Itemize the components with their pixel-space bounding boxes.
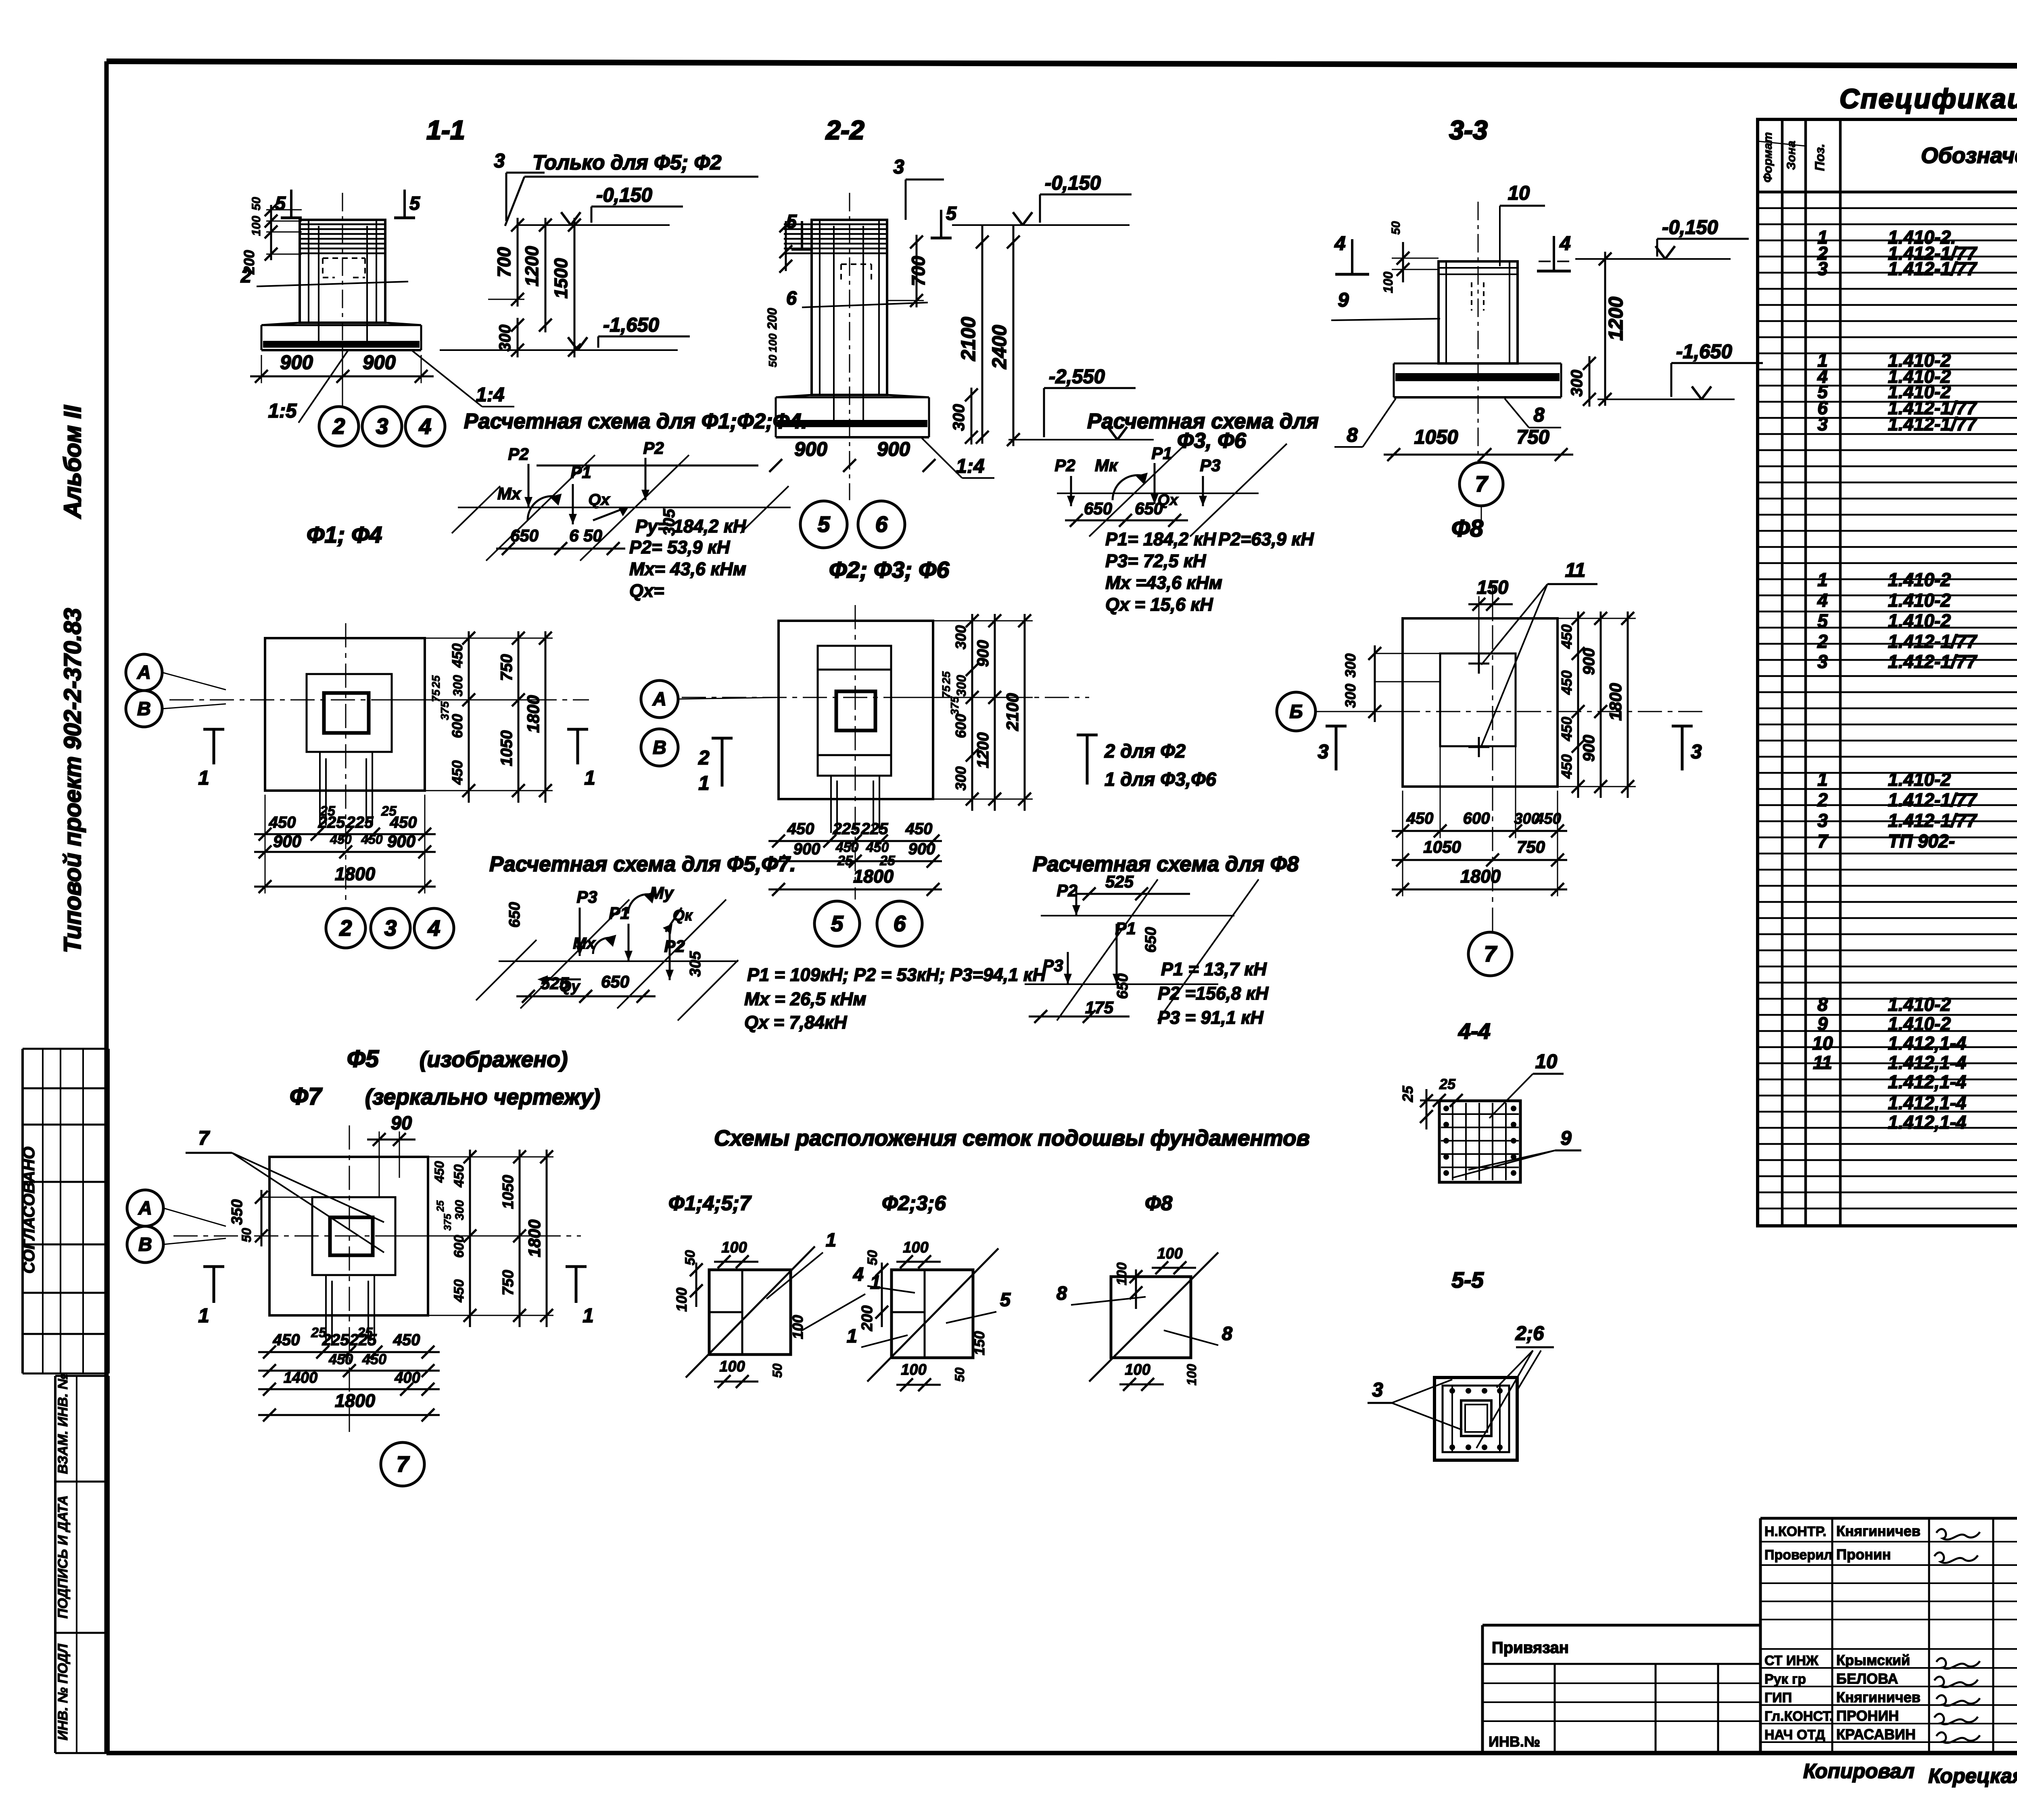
svg-text:А: А: [137, 662, 151, 683]
svg-text:5: 5: [831, 911, 844, 936]
svg-text:1: 1: [847, 1325, 857, 1346]
svg-text:300: 300: [1342, 684, 1359, 708]
svg-text:900: 900: [363, 352, 396, 374]
svg-text:1.412,1-4: 1.412,1-4: [1888, 1071, 1966, 1092]
svg-text:7: 7: [1475, 472, 1489, 497]
svg-text:Р1: Р1: [1115, 919, 1136, 938]
svg-text:450: 450: [273, 1331, 300, 1349]
svg-text:300: 300: [954, 675, 969, 697]
section marks 3 plan 3: [1318, 726, 1702, 770]
svg-text:1: 1: [870, 1271, 881, 1293]
svg-text:10: 10: [1535, 1051, 1558, 1073]
svg-text:1.412-1/77: 1.412-1/77: [1888, 789, 1977, 810]
svg-text:А: А: [138, 1197, 152, 1219]
svg-text:750: 750: [1516, 426, 1549, 448]
left margin label Album II: [59, 405, 86, 519]
plan 1 bottom dims: [254, 795, 436, 893]
svg-text:900: 900: [794, 438, 827, 460]
svg-text:1.412-1/77: 1.412-1/77: [1888, 413, 1977, 434]
svg-text:25: 25: [1439, 1076, 1456, 1092]
svg-text:3: 3: [1318, 741, 1328, 763]
svg-text:900: 900: [1580, 735, 1598, 762]
detail 5-5 leaders: [1368, 1323, 1554, 1448]
svg-text:650: 650: [506, 902, 523, 927]
svg-text:3: 3: [1691, 741, 1702, 763]
svg-text:4: 4: [1817, 590, 1828, 611]
svg-text:25: 25: [435, 1200, 446, 1212]
svg-text:450: 450: [1558, 624, 1575, 649]
load values F3F6: [1105, 529, 1314, 615]
svg-text:100: 100: [250, 216, 263, 236]
svg-text:Гл.КОНСТ.: Гл.КОНСТ.: [1764, 1709, 1833, 1724]
svg-text:1:4: 1:4: [956, 455, 985, 477]
svg-text:1: 1: [698, 772, 709, 794]
mark F1 F4: [307, 522, 382, 548]
svg-text:-1,650: -1,650: [1676, 341, 1732, 363]
svg-text:Р2 =156,8 кН: Р2 =156,8 кН: [1158, 983, 1269, 1004]
svg-text:300: 300: [950, 404, 968, 431]
section marks 5 at 1-1: [275, 190, 420, 218]
detail 5-5 title: [1451, 1267, 1484, 1292]
svg-text:600: 600: [449, 714, 466, 738]
svg-text:Р1: Р1: [609, 904, 629, 923]
svg-text:450: 450: [361, 832, 383, 847]
specification table title: [1840, 83, 2017, 114]
mark F8: [1451, 515, 1483, 542]
svg-text:1200: 1200: [974, 733, 992, 768]
svg-text:305: 305: [687, 951, 704, 977]
svg-text:650: 650: [1142, 927, 1159, 952]
svg-text:1.412,1-4: 1.412,1-4: [1888, 1092, 1966, 1113]
axis circle 7 F5F7: [381, 1442, 424, 1486]
svg-text:7: 7: [397, 1452, 410, 1477]
elevation -2.550 at 2-2: [1008, 366, 1154, 440]
svg-text:3: 3: [1817, 651, 1828, 672]
left small dims 3-3: [1381, 221, 1439, 293]
column pier 1-1: [300, 220, 385, 341]
svg-text:1800: 1800: [1606, 683, 1625, 720]
svg-text:2: 2: [332, 414, 345, 439]
svg-text:1: 1: [584, 767, 595, 789]
svg-text:1: 1: [198, 767, 209, 789]
svg-text:Копировал: Копировал: [1803, 1759, 1915, 1782]
svg-text:1.412-1/77: 1.412-1/77: [1888, 651, 1977, 672]
svg-text:300: 300: [1342, 653, 1359, 678]
svg-text:8: 8: [1057, 1282, 1067, 1304]
svg-text:1.410-2: 1.410-2: [1888, 1013, 1951, 1034]
svg-text:650: 650: [1084, 499, 1112, 518]
svg-text:900: 900: [387, 832, 416, 851]
svg-text:650: 650: [1135, 499, 1163, 518]
svg-text:1.410-2: 1.410-2: [1888, 569, 1951, 590]
svg-text:Мх = 26,5 кНм: Мх = 26,5 кНм: [744, 989, 866, 1009]
svg-text:50: 50: [239, 1228, 254, 1242]
svg-text:450: 450: [1558, 670, 1575, 695]
svg-text:650: 650: [510, 526, 539, 545]
svg-text:-0,150: -0,150: [596, 184, 652, 206]
svg-text:5: 5: [409, 192, 420, 214]
svg-text:Рук гр: Рук гр: [1764, 1672, 1806, 1687]
svg-text:450: 450: [835, 840, 859, 855]
svg-text:25: 25: [940, 671, 952, 685]
svg-text:-0,150: -0,150: [1662, 217, 1718, 238]
svg-text:1-1: 1-1: [426, 115, 465, 145]
title block stamp table: [1760, 1518, 2017, 1753]
detail 4-4 leaders: [1452, 1051, 1581, 1178]
flag 3 at 2-2 top: [893, 156, 944, 220]
plan F5 F7 labels: [290, 1046, 600, 1110]
svg-text:Мх =43,6 кНм: Мх =43,6 кНм: [1105, 572, 1222, 593]
base slab 1-1: [261, 323, 421, 350]
svg-text:225: 225: [318, 814, 345, 831]
svg-text:Ф1; Ф4: Ф1; Ф4: [307, 522, 382, 548]
plan 2 right dims: [891, 614, 1033, 811]
svg-text:3-3: 3-3: [1449, 115, 1487, 145]
svg-text:Мх= 43,6 кНм: Мх= 43,6 кНм: [629, 559, 746, 579]
svg-text:450: 450: [330, 832, 352, 847]
svg-text:Спецификация монолитных фунд: Спецификация монолитных фундаментов: [1840, 83, 2017, 114]
svg-text:1.412-1/77: 1.412-1/77: [1888, 258, 1977, 279]
section view 3-3 title: [1449, 115, 1487, 145]
svg-text:10: 10: [1508, 182, 1530, 204]
svg-text:Р1= 184,2 кН: Р1= 184,2 кН: [1105, 529, 1217, 549]
flag 3 at 1-1 top: [494, 150, 545, 221]
svg-text:900: 900: [908, 840, 935, 858]
svg-text:90: 90: [391, 1112, 412, 1133]
svg-text:525: 525: [541, 974, 569, 993]
leader 2 mesh: [240, 265, 408, 286]
svg-text:2-2: 2-2: [825, 115, 864, 145]
section marks 5 at 2-2: [786, 202, 957, 249]
base slab 3-3: [1394, 363, 1561, 397]
svg-text:100: 100: [1184, 1364, 1199, 1386]
svg-text:100: 100: [1157, 1245, 1182, 1262]
svg-text:2: 2: [698, 747, 709, 769]
svg-text:Формат: Формат: [1761, 132, 1775, 182]
svg-text:1: 1: [826, 1229, 836, 1250]
svg-text:1400: 1400: [284, 1369, 318, 1386]
svg-text:(зеркально чертежу): (зеркально чертежу): [365, 1084, 600, 1109]
svg-text:450: 450: [449, 643, 466, 668]
svg-text:100: 100: [1125, 1361, 1150, 1378]
svg-text:3: 3: [1817, 810, 1828, 831]
svg-text:150: 150: [1477, 576, 1508, 598]
svg-text:1200: 1200: [1605, 296, 1627, 340]
svg-text:7: 7: [1484, 941, 1497, 966]
svg-text:Мк: Мк: [1095, 456, 1118, 475]
base slab 2-2: [776, 395, 929, 437]
svg-text:900: 900: [793, 840, 821, 858]
mesh scheme F1457 label: [668, 1192, 752, 1215]
svg-text:450: 450: [449, 760, 466, 785]
svg-text:600: 600: [451, 1235, 467, 1258]
svg-text:5-5: 5-5: [1451, 1267, 1484, 1292]
mark F2 F3 F6: [829, 557, 950, 583]
svg-text:Qх = 15,6 кН: Qх = 15,6 кН: [1105, 594, 1213, 615]
column pier 3-3: [1439, 261, 1518, 363]
svg-text:1: 1: [1817, 569, 1828, 590]
svg-text:450: 450: [787, 820, 814, 838]
svg-text:1050: 1050: [1414, 426, 1458, 448]
svg-text:2: 2: [240, 265, 251, 286]
F5F7 left dims: [229, 1190, 312, 1246]
svg-text:ВЗАМ. ИНВ. №: ВЗАМ. ИНВ. №: [55, 1374, 71, 1474]
detail 5-5 square: [1434, 1378, 1517, 1460]
svg-text:900: 900: [1580, 648, 1598, 675]
svg-text:2;6: 2;6: [1515, 1323, 1545, 1344]
svg-text:Альбом II: Альбом II: [59, 405, 86, 519]
svg-text:50: 50: [952, 1367, 967, 1382]
F5F7 bottom dims: [258, 1325, 440, 1421]
svg-text:КРАСАВИН: КРАСАВИН: [1836, 1726, 1916, 1743]
svg-text:10: 10: [1812, 1033, 1833, 1054]
svg-text:9: 9: [1817, 1013, 1828, 1034]
svg-text:Qк: Qк: [673, 907, 693, 924]
svg-text:Корецкая: Корецкая: [1928, 1764, 2017, 1787]
svg-text:750: 750: [500, 1270, 517, 1295]
svg-text:375: 375: [442, 1213, 453, 1231]
svg-text:В: В: [137, 698, 151, 719]
svg-text:900: 900: [273, 832, 301, 851]
svg-text:1500: 1500: [551, 258, 571, 298]
svg-text:1:5: 1:5: [268, 400, 297, 422]
svg-text:ПОДПИСЬ И ДАТА: ПОДПИСЬ И ДАТА: [55, 1495, 71, 1619]
dim 900 900 under base 2-2: [537, 438, 935, 472]
svg-text:6: 6: [786, 287, 797, 309]
specification table grid: [1758, 119, 2017, 1226]
detail 4-4 dims 25: [1399, 1076, 1472, 1129]
svg-text:НАЧ ОТД: НАЧ ОТД: [1764, 1727, 1825, 1743]
svg-text:700: 700: [908, 256, 929, 286]
svg-text:ТП 902-: ТП 902-: [1888, 831, 1955, 852]
svg-text:Пронин: Пронин: [1836, 1546, 1891, 1563]
leader 7 F5F7: [186, 1127, 384, 1252]
svg-text:225: 225: [861, 820, 888, 838]
mesh scheme F236: [847, 1239, 1011, 1391]
svg-text:Схемы расположения сеток подош: Схемы расположения сеток подошвы фундаме…: [714, 1125, 1310, 1150]
section marks 4 at 3-3: [1334, 233, 1571, 274]
svg-text:Р2: Р2: [1054, 456, 1075, 475]
svg-text:Крымский: Крымский: [1836, 1652, 1910, 1668]
column pier 2-2: [784, 220, 887, 422]
svg-text:Ф8: Ф8: [1145, 1192, 1173, 1215]
svg-text:2100: 2100: [958, 317, 979, 361]
svg-text:3: 3: [376, 414, 388, 439]
svg-text:Р2: Р2: [643, 438, 664, 457]
svg-text:450: 450: [1406, 810, 1434, 827]
svg-text:Только для Ф5; Ф2: Только для Ф5; Ф2: [532, 151, 722, 174]
svg-text:6 50: 6 50: [569, 526, 602, 545]
svg-text:700: 700: [494, 247, 514, 277]
svg-text:Проверил: Проверил: [1764, 1547, 1833, 1563]
load values F5F7: [744, 964, 1046, 1033]
column axis 2-2: [849, 193, 850, 500]
svg-text:300: 300: [952, 766, 969, 791]
plan 3 anchor crosses: [1468, 653, 1489, 757]
svg-text:Ф2;3;6: Ф2;3;6: [882, 1192, 946, 1215]
svg-text:400: 400: [394, 1369, 420, 1386]
svg-text:1200: 1200: [522, 246, 542, 286]
svg-text:Ф8: Ф8: [1451, 515, 1483, 542]
svg-text:БЕЛОВА: БЕЛОВА: [1836, 1670, 1898, 1687]
mesh layout title: [714, 1125, 1310, 1150]
axis circles A B F5F7: [127, 1190, 226, 1263]
svg-text:ИНВ.№: ИНВ.№: [1489, 1733, 1540, 1750]
section marks 1 F5F7: [198, 1267, 593, 1327]
svg-text:1800: 1800: [853, 866, 894, 887]
sidebar inventory strip: [55, 1374, 109, 1753]
section marks 2 1 plan 2: [698, 738, 733, 794]
svg-text:25: 25: [430, 675, 442, 689]
axis circles 2 3 4 under 1-1: [319, 351, 445, 446]
svg-text:9: 9: [1560, 1127, 1572, 1149]
svg-text:7: 7: [1817, 831, 1829, 852]
svg-text:Н.КОНТР.: Н.КОНТР.: [1764, 1524, 1827, 1539]
right dim chain 1-1: [488, 218, 581, 357]
svg-text:450: 450: [1558, 754, 1575, 779]
svg-text:100: 100: [1381, 271, 1395, 293]
elevation -0.150 at 3-3: [1539, 217, 1749, 261]
axis circles A B plan 1: [126, 654, 226, 727]
svg-text:75: 75: [940, 685, 952, 698]
svg-text:1: 1: [198, 1305, 209, 1327]
svg-text:Мх: Мх: [573, 935, 596, 952]
svg-text:Qх = 7,84кН: Qх = 7,84кН: [744, 1012, 848, 1033]
svg-text:650: 650: [601, 972, 629, 991]
svg-text:25: 25: [1399, 1085, 1416, 1102]
svg-text:Расчетная схема для Ф1;Ф2;Ф4.: Расчетная схема для Ф1;Ф2;Ф4.: [464, 409, 807, 433]
svg-text:1.410-2: 1.410-2: [1888, 994, 1951, 1015]
svg-text:100: 100: [903, 1239, 928, 1256]
axis circle 7 plan 3: [1468, 932, 1512, 976]
svg-text:Р3: Р3: [1042, 956, 1063, 975]
svg-text:Р3 = 91,1 кН: Р3 = 91,1 кН: [1158, 1007, 1264, 1028]
svg-text:200: 200: [765, 308, 779, 330]
leader 6 mesh: [786, 287, 928, 309]
svg-text:3: 3: [494, 150, 505, 172]
svg-text:750: 750: [498, 654, 516, 681]
svg-text:3: 3: [1817, 258, 1828, 279]
load scheme title F8: [1033, 852, 1299, 876]
svg-text:Р1: Р1: [1151, 444, 1172, 463]
section marks 1 plan 1: [198, 729, 595, 789]
svg-text:1: 1: [583, 1305, 593, 1327]
svg-text:1.412,1-4: 1.412,1-4: [1888, 1033, 1966, 1054]
specification table rows: [1812, 194, 2017, 1171]
load values F8: [1158, 959, 1269, 1028]
load scheme F8: [1025, 872, 1259, 1023]
svg-text:1800: 1800: [335, 1390, 375, 1411]
plan view F8 outer: [1403, 618, 1558, 787]
dim 90 over F5F7: [367, 1112, 416, 1198]
svg-text:300: 300: [496, 325, 514, 352]
load scheme title F3 F6: [1087, 409, 1319, 453]
plan 2 right note: [1077, 735, 1217, 790]
svg-text:-0,150: -0,150: [1045, 172, 1101, 194]
svg-text:900: 900: [877, 438, 910, 460]
svg-text:Княгиничев: Княгиничев: [1836, 1689, 1921, 1705]
svg-text:1.412,1-4: 1.412,1-4: [1888, 1052, 1966, 1073]
load scheme F5F7: [476, 883, 738, 1021]
svg-text:2100: 2100: [1003, 693, 1022, 731]
plan 2 bottom dims: [768, 820, 942, 896]
svg-text:750: 750: [1517, 837, 1545, 856]
svg-text:150: 150: [971, 1331, 988, 1355]
svg-text:5: 5: [946, 202, 957, 224]
left rebar dims 1-1: [241, 197, 302, 275]
load scheme title F5 F7: [489, 852, 796, 876]
svg-text:Ф7: Ф7: [290, 1083, 323, 1110]
svg-text:Обозначение: Обозначение: [1921, 143, 2017, 168]
svg-text:450: 450: [1558, 717, 1575, 741]
svg-text:225: 225: [349, 1331, 377, 1349]
svg-text:Б: Б: [1289, 701, 1303, 722]
svg-text:8: 8: [1533, 404, 1545, 426]
svg-text:650: 650: [1114, 973, 1131, 999]
load scheme F1F2F4: [452, 438, 791, 561]
axis circles 5 6 under 2-2: [800, 501, 905, 548]
right dim chain 2-2: [887, 225, 1020, 446]
plan 1 rebar stubs: [320, 752, 372, 825]
svg-text:1:4: 1:4: [476, 384, 505, 406]
plan 1 axes: [169, 623, 589, 906]
plan 2 axes: [682, 605, 1089, 900]
svg-text:450: 450: [390, 814, 417, 831]
svg-text:1800: 1800: [1460, 866, 1501, 887]
svg-text:Ф1;4;5;7: Ф1;4;5;7: [668, 1192, 752, 1215]
svg-text:100: 100: [789, 1315, 806, 1339]
svg-text:1050: 1050: [500, 1175, 517, 1209]
svg-text:50: 50: [865, 1250, 880, 1265]
plan view F1-F4 outer: [265, 638, 425, 791]
svg-text:1.412-1/77: 1.412-1/77: [1888, 810, 1977, 831]
svg-text:7: 7: [198, 1127, 210, 1149]
plan 3 right dims: [1558, 612, 1636, 798]
plan 1 right dims: [392, 631, 553, 803]
svg-text:4: 4: [428, 916, 441, 941]
svg-text:450: 450: [393, 1331, 420, 1349]
svg-text:600: 600: [952, 714, 969, 738]
svg-text:11: 11: [1813, 1052, 1832, 1073]
svg-text:100: 100: [719, 1358, 745, 1375]
slope labels 1-1: [268, 350, 514, 423]
svg-text:ИНВ. № ПОДЛ: ИНВ. № ПОДЛ: [55, 1644, 71, 1741]
svg-text:450: 450: [328, 1351, 353, 1367]
right dim chain 3-3: [1568, 252, 1627, 407]
leader 10 at 3-3: [1500, 182, 1545, 266]
svg-text:900: 900: [974, 640, 992, 667]
axis circle B plan 3: [1277, 692, 1403, 731]
left margin label project number: [59, 608, 86, 953]
svg-text:СОГЛАСОВАНО: СОГЛАСОВАНО: [20, 1147, 38, 1274]
svg-text:Р2: Р2: [508, 445, 528, 463]
svg-text:(изображено): (изображено): [420, 1047, 568, 1072]
mesh scheme F1457: [673, 1229, 881, 1388]
svg-text:1800: 1800: [525, 1219, 544, 1257]
svg-text:3: 3: [384, 916, 397, 941]
svg-text:Р1 = 109кН; Р2 = 53кН; Р3=94,1: Р1 = 109кН; Р2 = 53кН; Р3=94,1 кН: [747, 964, 1046, 985]
svg-text:9: 9: [1338, 289, 1349, 311]
svg-text:1800: 1800: [335, 864, 375, 884]
svg-text:5: 5: [818, 512, 831, 537]
svg-text:ГИП: ГИП: [1764, 1690, 1792, 1705]
dim 150 over plan 3: [1468, 576, 1513, 653]
svg-text:100: 100: [721, 1239, 747, 1256]
svg-text:50: 50: [766, 355, 779, 367]
svg-text:Расчетная схема для Ф8: Расчетная схема для Ф8: [1033, 852, 1299, 876]
svg-text:50: 50: [250, 197, 263, 211]
load values F1F2F4: [629, 516, 747, 601]
